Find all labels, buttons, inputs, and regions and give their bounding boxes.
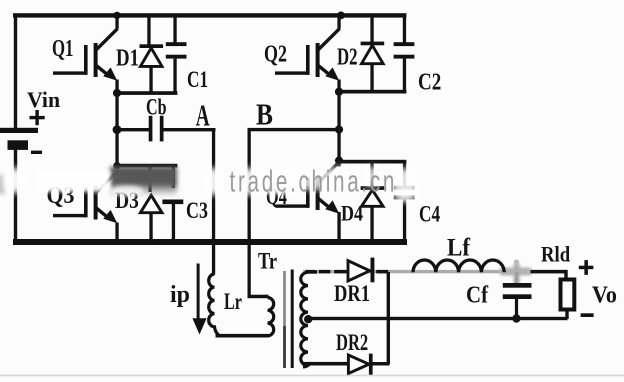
svg-text:D4: D4 [341,202,363,226]
svg-text:Lr: Lr [224,289,242,314]
svg-text:Cb: Cb [146,95,167,120]
svg-text:D2: D2 [337,45,358,70]
svg-text:Q1: Q1 [52,36,73,61]
svg-text:C4: C4 [419,202,440,227]
svg-text:C2: C2 [418,67,441,95]
svg-text:C1: C1 [187,68,208,93]
svg-text:B: B [256,98,273,132]
svg-text:C3: C3 [186,199,208,224]
svg-text:Tr: Tr [258,248,277,275]
svg-text:DR2: DR2 [336,330,368,355]
svg-text:Q2: Q2 [264,40,287,67]
svg-text:DR1: DR1 [334,280,370,306]
svg-text:Vin: Vin [27,87,60,112]
svg-text:ip: ip [170,282,190,308]
svg-text:Vo: Vo [592,281,617,308]
svg-text:A: A [196,98,210,133]
svg-text:trade.china.cn: trade.china.cn [230,163,398,198]
svg-text:D1: D1 [116,44,139,71]
svg-text:Rld: Rld [541,243,571,267]
svg-text:Lf: Lf [447,235,471,262]
svg-text:Cf: Cf [466,281,488,308]
